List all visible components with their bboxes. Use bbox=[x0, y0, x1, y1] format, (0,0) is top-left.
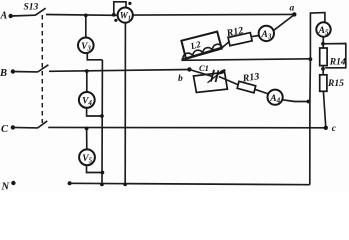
junction C-V5 bbox=[85, 127, 89, 131]
junction A-V3 bbox=[84, 14, 88, 18]
ammeter A4 bbox=[268, 90, 283, 105]
node c bbox=[324, 124, 337, 134]
voltmeter V3 bbox=[78, 15, 94, 53]
wire rail down to N bbox=[309, 59, 312, 185]
resistor R15 bbox=[320, 75, 344, 92]
svg-text:R14: R14 bbox=[329, 57, 346, 67]
resistor R13 bbox=[237, 71, 260, 93]
svg-text:C1: C1 bbox=[199, 63, 209, 73]
R14 label frame bbox=[323, 44, 346, 68]
svg-text:B: B bbox=[0, 68, 7, 79]
junction rail-A4 bbox=[307, 100, 311, 104]
inductor L2 bbox=[181, 32, 222, 59]
wire R14 to R15 bbox=[322, 66, 324, 75]
switch S13 pole B bbox=[38, 65, 49, 72]
wire A3 to node a bbox=[274, 15, 294, 31]
wire A5 to R14 bbox=[322, 37, 324, 48]
wire V3 bottom hook bbox=[87, 53, 102, 60]
wire R13 to A4 bbox=[255, 89, 268, 93]
wire branch a baseline bbox=[181, 42, 229, 60]
junction B-V4 bbox=[85, 69, 89, 73]
junction A5-R14 bbox=[321, 42, 325, 46]
ammeter A5 bbox=[316, 22, 330, 36]
node A bbox=[0, 11, 13, 22]
wattmeter W1 bbox=[114, 2, 133, 23]
switch linkage dashed bbox=[41, 15, 43, 123]
wire C terminal to switch bbox=[13, 126, 38, 129]
svg-text:V4: V4 bbox=[82, 97, 92, 107]
wire line B switch to node b bbox=[49, 70, 189, 72]
junction common-V4 bbox=[100, 114, 104, 118]
capacitor C1 bbox=[189, 63, 227, 93]
junction common-V5 bbox=[101, 171, 105, 175]
svg-text:N: N bbox=[1, 182, 10, 192]
junction N-common bbox=[100, 183, 104, 187]
switch S13 pole A bbox=[24, 3, 46, 16]
node N bbox=[1, 181, 16, 193]
svg-text:b: b bbox=[178, 74, 183, 84]
junction A-W1 bracket bbox=[112, 13, 116, 17]
node a bbox=[290, 4, 297, 17]
resistor R14 bbox=[320, 48, 346, 67]
wire V4 bottom hook bbox=[87, 108, 102, 116]
wire V5 bottom hook bbox=[87, 165, 103, 172]
wire right rail bbox=[310, 13, 325, 60]
voltmeter V4 bbox=[79, 71, 95, 108]
wire L2 node to rail bbox=[181, 59, 310, 61]
wire R15 to node c bbox=[323, 91, 325, 128]
node B bbox=[0, 68, 15, 79]
wire A terminal to switch bbox=[11, 14, 36, 17]
junction N-W1 wire bbox=[123, 182, 127, 186]
wire line A switch to node a bbox=[46, 13, 294, 16]
wire W1 voltage coil to N bbox=[124, 23, 126, 185]
voltmeter V5 bbox=[79, 129, 95, 166]
wire voltmeter common to N bbox=[101, 60, 103, 185]
ammeter A3 bbox=[259, 26, 274, 41]
svg-text:R15: R15 bbox=[327, 79, 344, 89]
wire line N bbox=[68, 181, 310, 185]
svg-text:A5: A5 bbox=[318, 26, 329, 36]
node b bbox=[178, 67, 192, 84]
svg-text:V3: V3 bbox=[81, 42, 91, 52]
wire A4 to rail bbox=[283, 100, 309, 102]
svg-text:A4: A4 bbox=[269, 94, 280, 104]
node C bbox=[1, 124, 15, 135]
svg-text:A3: A3 bbox=[260, 30, 271, 40]
svg-text:A: A bbox=[0, 11, 8, 22]
svg-text:S13: S13 bbox=[24, 3, 39, 13]
svg-text:V5: V5 bbox=[82, 154, 92, 164]
junction R14-R15 bbox=[321, 67, 325, 71]
resistor R12 bbox=[225, 25, 252, 46]
wire R12 to A3 bbox=[251, 35, 260, 36]
switch S13 pole C bbox=[38, 121, 48, 128]
svg-text:C: C bbox=[1, 124, 9, 135]
svg-text:a: a bbox=[290, 4, 295, 14]
junction rail-L2 bbox=[309, 57, 313, 61]
wire C1 to R13 bbox=[219, 77, 238, 85]
wire B terminal to switch bbox=[13, 71, 38, 73]
wire line C switch to node c bbox=[48, 126, 326, 128]
